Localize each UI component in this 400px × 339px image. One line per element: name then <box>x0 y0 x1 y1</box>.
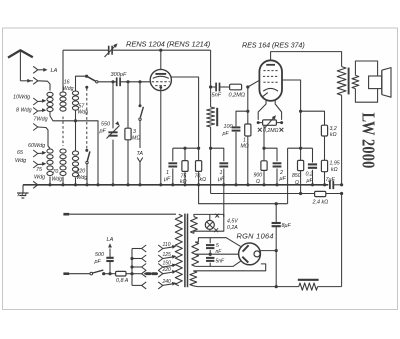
switch TA <box>139 104 142 107</box>
svg-text:220: 220 <box>162 267 172 273</box>
svg-text:2,4 kΩ: 2,4 kΩ <box>312 200 329 206</box>
wire tube2 anode to output transformer <box>271 52 342 67</box>
svg-text:8 Wdg: 8 Wdg <box>16 108 32 114</box>
wire 550pF branch <box>112 82 114 129</box>
node 550pF branch <box>111 80 114 83</box>
svg-text:0,2: 0,2 <box>306 171 314 177</box>
wire TA branch <box>139 82 141 106</box>
pot terminal X right <box>280 128 284 132</box>
wire 1.95k to bus <box>324 172 326 185</box>
svg-text:MΩ: MΩ <box>132 136 140 142</box>
svg-text:5nF: 5nF <box>212 93 222 99</box>
svg-text:Ω: Ω <box>256 179 260 185</box>
svg-text:7Wdg: 7Wdg <box>34 117 48 123</box>
tube U2 cathode curve <box>263 88 278 91</box>
svg-text:LA: LA <box>51 68 58 74</box>
voltage selector bus <box>131 249 133 286</box>
plug 75Wdg tap <box>33 161 38 168</box>
svg-text:1: 1 <box>243 137 246 143</box>
wire 3.2k to 1.95k <box>324 136 326 160</box>
plug 65Wdg tap <box>33 150 38 157</box>
svg-text:75: 75 <box>36 167 43 173</box>
terminal X lamp <box>215 214 219 218</box>
tube U2 RES164 envelope <box>259 60 282 101</box>
svg-text:RES 164 (RES 374): RES 164 (RES 374) <box>242 40 305 49</box>
svg-text:110: 110 <box>163 242 171 248</box>
wire choke top <box>210 87 212 107</box>
tube U1 RENS1204 envelope <box>150 69 171 90</box>
svg-text:300pF: 300pF <box>111 72 127 78</box>
svg-text:kΩ: kΩ <box>331 167 338 173</box>
wire S1b to bus <box>86 164 88 185</box>
power transformer primary <box>175 214 182 286</box>
wire switch to 300pF <box>98 81 117 83</box>
svg-text:Wdg: Wdg <box>52 176 63 182</box>
node choke junction <box>209 147 212 150</box>
wire 1uF drop <box>172 148 174 161</box>
mains prong upper <box>63 213 69 216</box>
heater winding S1 <box>191 217 198 234</box>
wire 0.2uF drop <box>312 148 314 162</box>
wire fuse to selector <box>126 273 132 275</box>
svg-text:0,2MΩ: 0,2MΩ <box>229 93 246 99</box>
svg-text:TA: TA <box>137 151 144 157</box>
capacitor 5nF mains A <box>209 238 211 244</box>
node coil3 on return line <box>74 119 77 122</box>
wire antenna down-lead <box>19 50 21 81</box>
capacitor 1uF B <box>219 162 228 164</box>
choke core bar <box>216 108 218 126</box>
mains plug inserted 220 <box>146 272 150 275</box>
wire 100pF to bus <box>235 132 237 185</box>
svg-text:μF: μF <box>279 176 287 182</box>
nodes on bus <box>48 183 51 186</box>
jack TA phono <box>137 158 143 163</box>
svg-text:2: 2 <box>279 170 283 176</box>
wire segment B <box>211 148 224 161</box>
svg-text:60Wdg: 60Wdg <box>28 143 45 149</box>
potentiometer arrow <box>265 116 276 128</box>
coil L1 antenna winding <box>47 92 53 96</box>
resistor 900 Ohm <box>261 161 267 171</box>
wire 0.2uF to bus <box>312 170 314 185</box>
bus chassis line <box>23 184 328 186</box>
wire choke to HT rail <box>318 286 342 288</box>
capacitor 1uF A <box>168 162 177 164</box>
mains prong lower <box>63 272 69 275</box>
svg-text:900: 900 <box>254 172 263 178</box>
power transformer core <box>184 214 186 288</box>
svg-text:0,2A: 0,2A <box>227 225 238 231</box>
plug LA (long antenna) <box>33 66 38 73</box>
filter choke <box>299 283 318 290</box>
tube U2 anode bar <box>266 64 275 66</box>
terminal X lamp lower <box>214 228 218 232</box>
wire L4 bottom to bus <box>49 177 51 185</box>
coil L2 16 Wdg <box>60 92 66 96</box>
svg-text:1,95: 1,95 <box>330 161 340 167</box>
rectifier heater winding S3 <box>190 271 197 286</box>
plug band tap upper <box>33 124 38 131</box>
svg-text:Wdg: Wdg <box>77 175 88 181</box>
resistor 3 MOhm <box>125 128 131 140</box>
resistor 75 kOhm <box>184 148 186 160</box>
wire B+ filter drop <box>275 204 277 223</box>
svg-text:150: 150 <box>163 260 172 266</box>
tube U1 plate curve <box>153 76 169 78</box>
wire segment C <box>288 147 313 149</box>
node rectifier output <box>260 250 276 252</box>
svg-text:16: 16 <box>64 79 70 85</box>
mechanical link dashed S1 <box>85 86 88 89</box>
svg-text:3: 3 <box>133 129 136 135</box>
plug 8Wdg tap <box>33 108 38 115</box>
svg-text:550: 550 <box>101 122 110 128</box>
svg-text:1: 1 <box>166 170 169 176</box>
wire tube2 screen lead <box>282 80 301 148</box>
wire LA earth branch <box>109 262 111 274</box>
capacitor 7uF on bus <box>329 181 331 190</box>
wire bus after 7uF <box>333 184 341 186</box>
svg-text:RGN 1064: RGN 1064 <box>237 232 274 241</box>
wire HV bottom to rectifier anode 2 <box>195 261 240 266</box>
node switch out <box>102 272 105 275</box>
tube U2 cathode diagonal <box>262 93 267 97</box>
tube U1 cathode node <box>159 86 162 89</box>
svg-text:RENS 1204 (RENS 1214): RENS 1204 (RENS 1214) <box>126 39 211 48</box>
wire coil L3 top to band switch <box>76 76 87 91</box>
tube U3 filament strokes <box>243 245 249 251</box>
potentiometer hum 0.2MOhm <box>258 122 262 124</box>
svg-text:Wdg: Wdg <box>63 86 74 92</box>
coil core dashed link <box>62 117 64 147</box>
svg-text:pF: pF <box>94 259 102 265</box>
wire 850 to bias line <box>300 171 302 194</box>
svg-text:Wdg: Wdg <box>34 174 45 180</box>
output transformer secondary <box>352 75 359 88</box>
speaker driver <box>369 76 382 89</box>
svg-text:3,2: 3,2 <box>330 126 337 132</box>
wire 1M to bus <box>247 136 249 185</box>
svg-text:240: 240 <box>162 279 172 285</box>
node tube1 top <box>159 49 162 52</box>
wire mains lower to switch <box>69 273 90 275</box>
resistor 1 MOhm <box>245 124 251 136</box>
capacitor 100pF <box>232 126 241 128</box>
wire L6 bottom to bus <box>75 178 77 185</box>
svg-text:70: 70 <box>53 169 59 175</box>
plug antenna input <box>33 77 38 84</box>
wire transformer primary to PSU <box>341 95 343 185</box>
wire HV top to rectifier anode <box>195 238 240 247</box>
svg-text:1: 1 <box>220 170 223 176</box>
resistor 0.2 MOhm grid <box>230 84 242 90</box>
wire L1 bottom to grid-return line <box>50 112 98 185</box>
bias line 3 <box>199 185 288 204</box>
dial lamp 4.5V <box>209 214 211 220</box>
wire B+ return <box>193 285 298 288</box>
svg-text:125: 125 <box>163 252 172 258</box>
selector jacks <box>132 248 142 250</box>
svg-text:kΩ: kΩ <box>200 177 207 183</box>
svg-text:kΩ: kΩ <box>330 132 337 138</box>
node anode supply <box>209 85 212 88</box>
svg-text:LA: LA <box>107 237 114 243</box>
svg-text:pF: pF <box>222 131 230 137</box>
wire grid leak branch <box>247 87 249 124</box>
wire 2uF to bus <box>276 169 278 185</box>
output transformer primary <box>337 67 346 96</box>
node screen branch <box>299 110 302 113</box>
tube U1 cathode dashed <box>155 85 166 87</box>
svg-text:kΩ: kΩ <box>180 179 187 185</box>
choke anode load <box>207 107 215 127</box>
wire tube1 anode lead right <box>171 77 198 148</box>
wire decoupling segment A <box>173 147 199 149</box>
arrow LA up <box>108 243 112 247</box>
svg-text:10Wdg: 10Wdg <box>13 94 30 100</box>
wire 900 to bus <box>263 170 265 184</box>
capacitor 550pF variable <box>108 131 117 133</box>
switch S1a blade <box>85 75 88 78</box>
wire choke bottom to bias <box>210 127 212 194</box>
plug chassis <box>33 181 38 188</box>
wire 1uF B to heater line <box>223 169 225 217</box>
selector plugs right <box>158 245 163 252</box>
wire secondary loop <box>355 61 377 76</box>
resistor 850 Ohm <box>300 148 302 160</box>
tube U1 grid dashed <box>152 81 170 83</box>
coil L5 70 Wdg <box>60 149 66 153</box>
coil L6 220 Wdg <box>72 151 78 155</box>
wire to tube2 grid <box>246 85 249 88</box>
output transformer core <box>348 68 350 95</box>
tube U3 cathode circle <box>254 251 260 257</box>
wire grid top line <box>63 49 109 51</box>
svg-text:850: 850 <box>292 173 301 179</box>
svg-text:220: 220 <box>76 168 86 174</box>
wire heater S3 top to filament <box>193 264 265 271</box>
wire pot tap down <box>263 125 265 161</box>
svg-text:nF: nF <box>216 249 223 255</box>
tube U2 grids dashed <box>263 70 277 72</box>
HV winding S2 <box>192 242 199 266</box>
wire 100pF branch <box>236 111 248 126</box>
wire heater from above <box>223 214 225 216</box>
wire mains upper <box>69 213 176 215</box>
resistor 1.95 kOhm <box>321 160 327 171</box>
resistor 3.2 kOhm <box>321 125 327 136</box>
node TA branch <box>138 80 141 83</box>
node 3M branch <box>126 80 129 83</box>
capacitor 2uF <box>273 162 282 164</box>
tube U3 RGN1064 envelope <box>239 243 261 265</box>
svg-text:0,2MΩ: 0,2MΩ <box>263 128 279 134</box>
svg-text:100: 100 <box>224 124 233 130</box>
svg-text:4,5V: 4,5V <box>227 219 238 225</box>
tube2 filament leads <box>258 99 266 120</box>
svg-text:8μF: 8μF <box>282 223 292 229</box>
wire 3M branch <box>127 82 129 128</box>
svg-text:Wdg: Wdg <box>15 158 26 164</box>
wire coil L2 top to grid line <box>62 50 64 92</box>
resistor 2.4 kOhm <box>315 191 326 196</box>
plug 10Wdg tap <box>33 98 38 105</box>
wire 300pF to tube1 grid <box>120 81 150 83</box>
capacitor 5nF mains B <box>209 254 211 256</box>
wire tube1 cathode to bus <box>160 87 162 184</box>
coil L3 57 Wdg <box>72 91 78 95</box>
svg-text:μF: μF <box>163 177 171 183</box>
capacitor 300pF <box>116 77 118 86</box>
switch S1b blade lower <box>85 149 88 152</box>
svg-text:Ω: Ω <box>295 180 299 186</box>
wire L5 bottom to bus <box>62 177 64 185</box>
wire plug to coil L1 top <box>38 81 50 91</box>
wire hum branch <box>264 148 277 161</box>
coil L4 60-75 Wdg <box>47 149 53 153</box>
wire top cap to tube1 <box>160 50 162 69</box>
wire HV mid <box>195 253 239 255</box>
capacitor 8uF <box>272 222 281 224</box>
svg-text:pF: pF <box>99 128 107 134</box>
fuse 0.8A <box>116 271 126 276</box>
filter choke core <box>298 279 319 281</box>
svg-text:0,8 A: 0,8 A <box>116 278 129 284</box>
ground <box>17 192 29 194</box>
svg-text:65: 65 <box>17 150 24 156</box>
wire bus to ground <box>22 185 24 193</box>
capacitor 500pF <box>106 257 113 259</box>
pot terminal X left <box>258 128 262 132</box>
node 500pF tap <box>108 272 111 275</box>
svg-text:5nF: 5nF <box>216 258 226 264</box>
svg-text:LW 2000: LW 2000 <box>358 113 378 169</box>
capacitor 5nF coupling <box>211 86 217 88</box>
svg-text:500: 500 <box>95 252 104 258</box>
wire segment C left drop to bias return <box>287 148 289 204</box>
capacitor 0.2uF <box>308 163 317 165</box>
switch mains <box>90 272 93 275</box>
wire antenna to plug with arrow <box>20 80 33 82</box>
wire coil L3 bottom joint <box>75 111 77 152</box>
lamp loop wires <box>194 214 224 216</box>
bias line 2 <box>211 193 342 195</box>
wire 1uF A to bus <box>172 169 174 185</box>
antenna <box>8 50 33 57</box>
resistor 70 kOhm <box>198 148 200 160</box>
speaker cone <box>381 70 383 94</box>
wire screen to 3.2k <box>301 111 325 125</box>
trimmer capacitor <box>108 46 110 55</box>
tube U1 anode bar <box>155 73 166 75</box>
wire top line corner down <box>210 50 212 87</box>
